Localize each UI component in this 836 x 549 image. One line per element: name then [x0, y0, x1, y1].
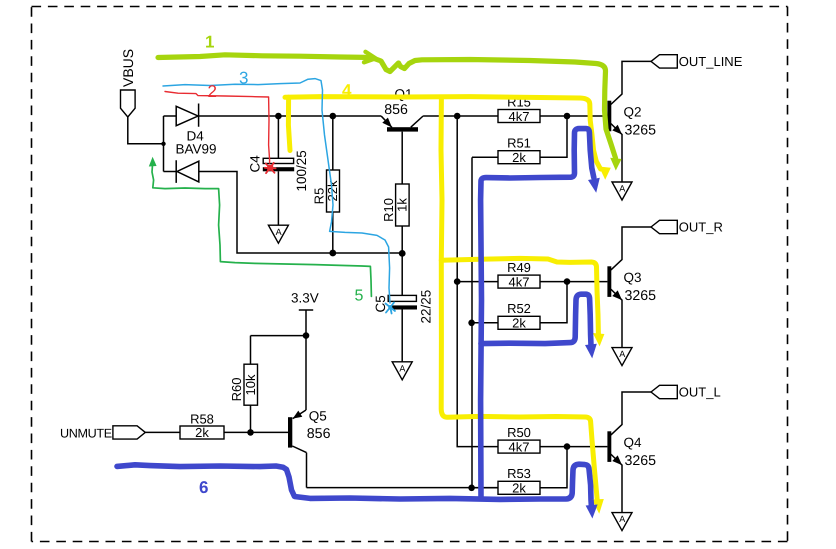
svg-text:R53: R53	[507, 466, 531, 481]
svg-text:22/25: 22/25	[419, 290, 434, 324]
svg-text:OUT_LINE: OUT_LINE	[679, 54, 743, 69]
svg-text:10k: 10k	[243, 374, 258, 395]
svg-text:100/25: 100/25	[294, 150, 309, 191]
svg-text:R60: R60	[229, 378, 244, 402]
svg-text:4k7: 4k7	[509, 439, 530, 454]
svg-text:R51: R51	[507, 136, 531, 151]
svg-text:Q3: Q3	[624, 270, 642, 285]
svg-text:OUT_R: OUT_R	[679, 220, 723, 235]
svg-text:856: 856	[307, 426, 331, 442]
svg-text:BAV99: BAV99	[176, 142, 217, 157]
svg-text:2k: 2k	[512, 150, 526, 165]
svg-text:Q5: Q5	[309, 409, 327, 424]
svg-text:2k: 2k	[195, 425, 209, 440]
svg-text:OUT_L: OUT_L	[679, 385, 721, 400]
svg-text:4k7: 4k7	[509, 109, 530, 124]
svg-text:856: 856	[384, 102, 408, 118]
svg-text:5: 5	[355, 288, 364, 305]
svg-text:C4: C4	[248, 155, 263, 173]
svg-text:3265: 3265	[625, 453, 657, 469]
svg-text:2: 2	[208, 82, 217, 101]
svg-text:Q4: Q4	[624, 435, 643, 450]
svg-text:R50: R50	[507, 425, 531, 440]
svg-text:UNMUTE: UNMUTE	[60, 426, 112, 440]
svg-text:R49: R49	[507, 260, 531, 275]
svg-text:VBUS: VBUS	[120, 49, 136, 87]
svg-text:4k7: 4k7	[509, 274, 530, 289]
svg-text:R52: R52	[507, 301, 531, 316]
svg-text:3265: 3265	[625, 122, 657, 138]
svg-text:3.3V: 3.3V	[291, 291, 319, 306]
svg-text:Q2: Q2	[624, 105, 642, 120]
svg-text:2k: 2k	[512, 316, 526, 331]
svg-text:2k: 2k	[512, 481, 526, 496]
svg-text:3265: 3265	[625, 288, 657, 304]
svg-text:1: 1	[205, 33, 214, 52]
svg-text:1k: 1k	[395, 198, 410, 212]
svg-text:6: 6	[199, 478, 208, 497]
